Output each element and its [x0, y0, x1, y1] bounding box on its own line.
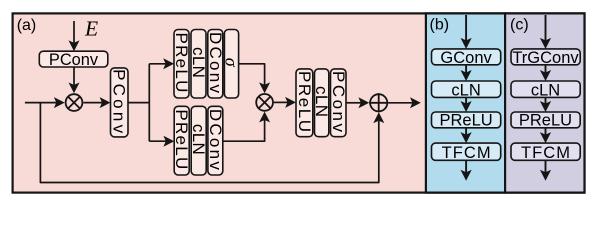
- arrowhead: E into PConv: [69, 40, 80, 51]
- block PReLU (b): [432, 112, 501, 128]
- arrowhead: into TrGConv: [540, 38, 551, 49]
- wire: branch split vertical: [148, 64, 150, 141]
- block PReLU (c): [511, 112, 580, 128]
- block cLN top row: [191, 30, 206, 99]
- add node: [369, 93, 388, 112]
- arrowhead: into bottom PReLU: [163, 136, 174, 147]
- block DConv top row: [208, 30, 223, 99]
- svg-text:E: E: [84, 17, 98, 41]
- wire: E input arrow: [73, 21, 75, 43]
- svg-text:TrGConv: TrGConv: [512, 49, 579, 67]
- svg-text:DConv: DConv: [206, 109, 225, 170]
- arrowhead: panel a output: [410, 97, 421, 108]
- svg-text:cLN: cLN: [189, 47, 208, 78]
- svg-text:(c): (c): [510, 17, 529, 34]
- wire: cLN to PReLU (c): [545, 97, 547, 104]
- svg-text:TFCM: TFCM: [442, 144, 491, 162]
- wire: mult2 to mid PReLU: [274, 101, 289, 103]
- arrowhead: into cLN (c): [540, 70, 551, 81]
- svg-text:(a): (a): [17, 17, 37, 34]
- wire: input main line: [25, 102, 57, 104]
- block PReLU bottom row: [174, 106, 189, 175]
- wire: vertical PConv to branch split: [128, 102, 149, 104]
- svg-text:σ: σ: [222, 58, 242, 68]
- block PConv horizontal: [39, 51, 108, 67]
- arrowhead: into top PReLU: [163, 58, 174, 69]
- arrowhead: into mult1 from top: [69, 83, 80, 94]
- block TrGConv: [511, 49, 580, 65]
- arrowhead: into PReLU (b): [461, 101, 472, 112]
- wire: PReLU to TFCM (c): [545, 128, 547, 135]
- wire: c output: [545, 160, 547, 172]
- wire: sigma to mult2: [239, 64, 265, 86]
- svg-text:cLN: cLN: [531, 81, 560, 99]
- arrowhead: into cLN (b): [461, 70, 472, 81]
- wire: mid PConv to add: [346, 102, 362, 104]
- mult node 1: [66, 94, 83, 111]
- wire: cLN to PReLU (b): [465, 97, 467, 104]
- wire: PConv to mult1: [73, 67, 75, 86]
- block cLN (b): [432, 81, 501, 97]
- wire: split to bottom PReLU: [149, 140, 166, 142]
- wire: bottom DConv to mult2: [223, 120, 265, 142]
- block cLN (c): [511, 81, 580, 97]
- block PConv vertical: [111, 68, 129, 137]
- block cLN bottom row: [191, 106, 206, 175]
- block TFCM (b): [432, 143, 501, 160]
- block PReLU top row: [174, 30, 189, 99]
- arrowhead: into mid PReLU: [285, 97, 296, 108]
- svg-text:PConv: PConv: [329, 71, 348, 133]
- arrowhead: into TFCM (b): [461, 132, 472, 143]
- svg-text:PReLU: PReLU: [295, 71, 314, 132]
- wire: mult1 to vertical PConv: [83, 102, 102, 104]
- block cLN mid group: [315, 69, 329, 137]
- svg-text:cLN: cLN: [189, 124, 208, 155]
- svg-text:GConv: GConv: [440, 49, 492, 67]
- block sigma: [224, 30, 238, 99]
- svg-text:PReLU: PReLU: [172, 109, 191, 169]
- block GConv: [432, 49, 501, 65]
- arrowhead: into add from bottom: [373, 112, 384, 123]
- panel (b) background: [426, 13, 505, 192]
- wire: add to output: [388, 102, 413, 104]
- wire: GConv to cLN (b): [465, 65, 467, 73]
- arrowhead: into mult2 from top: [259, 82, 270, 93]
- svg-text:PConv: PConv: [49, 51, 99, 69]
- wire: b input: [465, 15, 467, 41]
- svg-text:TFCM: TFCM: [521, 144, 570, 162]
- arrowhead: into TFCM (c): [540, 132, 551, 143]
- arrowhead: into vertical PConv: [100, 97, 111, 108]
- svg-text:(b): (b): [430, 17, 450, 34]
- block DConv bottom row: [208, 106, 223, 175]
- wire: PReLU to TFCM (b): [465, 128, 467, 135]
- arrowhead: into mult2 from bottom: [259, 112, 270, 123]
- wire: split to top PReLU: [149, 63, 166, 65]
- arrowhead: into add from left: [358, 97, 369, 108]
- svg-text:PReLU: PReLU: [172, 32, 191, 92]
- panel (a) background: [13, 13, 585, 192]
- svg-text:cLN: cLN: [312, 86, 331, 117]
- arrowhead: b output: [461, 170, 472, 181]
- wire: b output: [465, 160, 467, 172]
- wire: TrGConv to cLN (c): [545, 65, 547, 73]
- mult node 2: [256, 94, 273, 111]
- svg-text:PReLU: PReLU: [519, 112, 572, 130]
- wire: skip connection: [40, 103, 378, 183]
- block PReLU mid group: [296, 69, 313, 137]
- panel (c) background: [505, 13, 584, 192]
- arrowhead: into mult1 from left: [54, 97, 65, 108]
- svg-text:PReLU: PReLU: [439, 112, 492, 130]
- wire: c input: [545, 15, 547, 41]
- block TFCM (c): [511, 143, 580, 160]
- block PConv mid group: [331, 69, 347, 137]
- arrowhead: into PReLU (c): [540, 101, 551, 112]
- svg-text:cLN: cLN: [451, 81, 480, 99]
- arrowhead: into GConv: [461, 38, 472, 49]
- svg-text:PConv: PConv: [110, 69, 129, 133]
- arrowhead: c output: [540, 170, 551, 181]
